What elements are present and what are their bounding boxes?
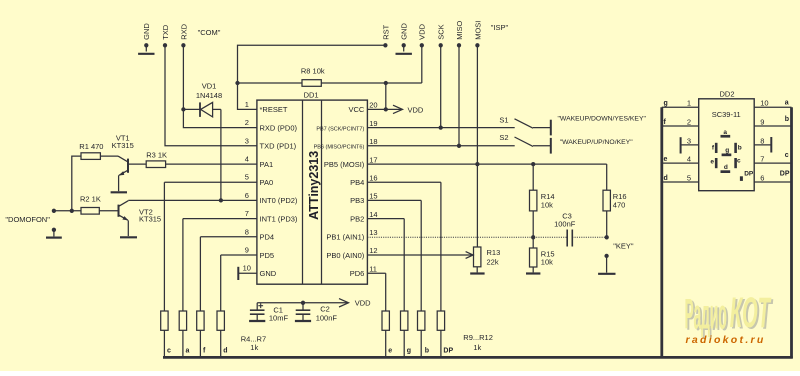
svg-text:g: g xyxy=(664,100,668,107)
svg-text:e: e xyxy=(710,159,714,166)
svg-text:b: b xyxy=(738,145,742,152)
svg-text:DP: DP xyxy=(744,171,754,178)
svg-text:RST: RST xyxy=(381,24,390,39)
svg-text:R14: R14 xyxy=(541,192,555,201)
svg-text:b: b xyxy=(425,348,429,355)
svg-text:e: e xyxy=(664,156,668,163)
svg-text:PB1 (AIN1): PB1 (AIN1) xyxy=(326,233,364,242)
svg-text:DD1: DD1 xyxy=(304,90,319,99)
svg-text:d: d xyxy=(724,164,728,171)
svg-text:PB2: PB2 xyxy=(350,214,364,223)
svg-text:DP: DP xyxy=(443,348,453,355)
svg-text:10mF: 10mF xyxy=(269,313,289,322)
svg-text:VCC: VCC xyxy=(348,105,364,114)
svg-text:11: 11 xyxy=(369,264,377,273)
svg-text:c: c xyxy=(785,152,789,159)
svg-text:100nF: 100nF xyxy=(554,220,576,229)
svg-text:PB7 (SCK/PCINT7): PB7 (SCK/PCINT7) xyxy=(316,126,364,132)
svg-text:KT315: KT315 xyxy=(112,141,134,150)
svg-text:12: 12 xyxy=(369,246,377,255)
svg-text:GND: GND xyxy=(142,23,151,40)
svg-text:470: 470 xyxy=(613,201,626,210)
svg-text:a: a xyxy=(723,129,727,136)
svg-text:10k: 10k xyxy=(541,258,553,267)
svg-text:VDD: VDD xyxy=(418,23,427,39)
svg-text:a: a xyxy=(785,100,789,107)
svg-text:radiokot.ru: radiokot.ru xyxy=(686,334,766,346)
svg-text:S2: S2 xyxy=(499,133,508,142)
svg-text:DP: DP xyxy=(780,171,790,178)
svg-text:5: 5 xyxy=(245,173,249,182)
svg-text:R3 1K: R3 1K xyxy=(146,151,167,160)
svg-text:PA0: PA0 xyxy=(260,178,274,187)
svg-text:10: 10 xyxy=(243,264,251,273)
svg-text:g: g xyxy=(407,348,411,355)
svg-text:R2 1K: R2 1K xyxy=(80,195,101,204)
svg-text:1: 1 xyxy=(245,100,249,109)
svg-text:ATTiny2313: ATTiny2313 xyxy=(307,151,321,220)
svg-text:КОТ: КОТ xyxy=(730,290,772,337)
svg-text:3: 3 xyxy=(687,136,691,145)
svg-text:c: c xyxy=(737,158,741,165)
svg-text:14: 14 xyxy=(369,210,377,219)
svg-text:19: 19 xyxy=(369,119,377,128)
svg-text:INT1 (PD3): INT1 (PD3) xyxy=(260,214,298,223)
svg-text:e: e xyxy=(388,348,392,355)
svg-text:7: 7 xyxy=(245,209,249,218)
svg-text:PB0 (AIN0): PB0 (AIN0) xyxy=(326,251,364,260)
svg-text:16: 16 xyxy=(369,173,377,182)
svg-text:b: b xyxy=(785,116,789,123)
svg-text:"KEY": "KEY" xyxy=(613,242,634,251)
svg-text:4: 4 xyxy=(687,155,691,164)
svg-text:C2: C2 xyxy=(320,304,330,313)
svg-text:18: 18 xyxy=(369,137,377,146)
svg-text:*RESET: *RESET xyxy=(260,105,288,114)
svg-text:6: 6 xyxy=(760,174,764,183)
svg-text:R9...R12: R9...R12 xyxy=(463,333,493,342)
svg-text:R13: R13 xyxy=(487,248,501,257)
svg-text:VDD: VDD xyxy=(408,105,424,114)
svg-text:a: a xyxy=(186,348,190,355)
svg-text:20: 20 xyxy=(369,101,377,110)
svg-text:VDD: VDD xyxy=(355,298,371,307)
svg-text:6: 6 xyxy=(245,191,249,200)
svg-text:PB6 (MISO/PCINT6): PB6 (MISO/PCINT6) xyxy=(314,145,365,151)
svg-text:SCK: SCK xyxy=(437,24,446,39)
svg-text:d: d xyxy=(664,175,668,182)
svg-text:10k: 10k xyxy=(541,201,553,210)
svg-text:15: 15 xyxy=(369,192,377,201)
svg-text:SC39-11: SC39-11 xyxy=(712,110,741,119)
svg-text:d: d xyxy=(223,348,227,355)
svg-text:"WAKEUP/DOWN/YES/KEY": "WAKEUP/DOWN/YES/KEY" xyxy=(558,116,647,123)
svg-text:100nF: 100nF xyxy=(316,313,338,322)
svg-text:1: 1 xyxy=(687,99,691,108)
svg-text:2: 2 xyxy=(687,118,691,127)
svg-text:S1: S1 xyxy=(499,115,508,124)
svg-text:PD6: PD6 xyxy=(350,269,365,278)
svg-text:GND: GND xyxy=(260,269,277,278)
svg-text:g: g xyxy=(725,147,729,154)
svg-text:R1 470: R1 470 xyxy=(79,142,103,151)
svg-text:9: 9 xyxy=(760,118,764,127)
svg-text:13: 13 xyxy=(369,228,377,237)
svg-text:4: 4 xyxy=(245,155,249,164)
svg-text:22k: 22k xyxy=(487,257,499,266)
svg-text:9: 9 xyxy=(245,246,249,255)
svg-text:RXD (PD0): RXD (PD0) xyxy=(260,123,298,132)
svg-text:8: 8 xyxy=(760,136,764,145)
svg-text:PD5: PD5 xyxy=(260,251,275,260)
svg-text:3: 3 xyxy=(245,136,249,145)
svg-text:INT0 (PD2): INT0 (PD2) xyxy=(260,196,298,205)
svg-text:1k: 1k xyxy=(250,343,258,352)
svg-text:8: 8 xyxy=(245,227,249,236)
svg-text:c: c xyxy=(167,348,171,355)
svg-text:10: 10 xyxy=(760,99,768,108)
svg-text:DD2: DD2 xyxy=(720,90,735,99)
svg-text:17: 17 xyxy=(369,155,377,164)
svg-text:RXD: RXD xyxy=(179,23,188,39)
svg-text:R8 10k: R8 10k xyxy=(301,67,325,76)
svg-text:"COM": "COM" xyxy=(198,28,221,37)
svg-text:MISO: MISO xyxy=(455,20,464,39)
svg-text:MOSI: MOSI xyxy=(473,21,482,40)
svg-text:"DOMOFON": "DOMOFON" xyxy=(5,215,50,224)
svg-text:PB4: PB4 xyxy=(350,178,364,187)
svg-text:"WAKEUP/UP/NO/KEY": "WAKEUP/UP/NO/KEY" xyxy=(560,139,634,146)
svg-text:TXD: TXD xyxy=(161,24,170,40)
svg-text:PB5 (MOSI): PB5 (MOSI) xyxy=(324,160,365,169)
svg-text:PB3: PB3 xyxy=(350,196,364,205)
svg-text:KT315: KT315 xyxy=(139,215,161,224)
svg-text:R16: R16 xyxy=(613,192,627,201)
svg-text:2: 2 xyxy=(245,118,249,127)
svg-text:Радио: Радио xyxy=(685,289,727,337)
svg-text:PD4: PD4 xyxy=(260,233,275,242)
svg-text:GND: GND xyxy=(400,23,409,40)
svg-text:7: 7 xyxy=(760,155,764,164)
svg-text:TXD (PD1): TXD (PD1) xyxy=(260,142,297,151)
svg-text:"ISP": "ISP" xyxy=(491,23,509,32)
svg-text:1k: 1k xyxy=(473,343,481,352)
svg-text:5: 5 xyxy=(687,174,691,183)
svg-text:PA1: PA1 xyxy=(260,160,274,169)
svg-text:VD1: VD1 xyxy=(202,81,217,90)
svg-text:1N4148: 1N4148 xyxy=(196,91,222,100)
